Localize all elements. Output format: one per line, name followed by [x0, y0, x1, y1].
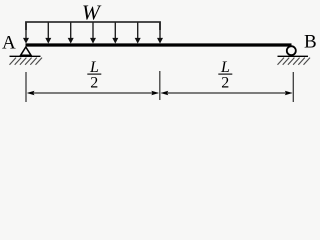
svg-text:2: 2 [221, 75, 229, 92]
pin support A: ground hatching [10, 58, 43, 65]
dimension line right span L/2 [161, 91, 293, 95]
beam AB [26, 43, 292, 46]
load arrow 5 [112, 22, 118, 44]
svg-text:B: B [304, 32, 317, 53]
roller support B: circle [287, 46, 296, 55]
svg-text:W: W [82, 0, 102, 24]
load arrow 1 [23, 22, 29, 44]
dimension label L/2 (left): fraction bar [87, 73, 101, 75]
roller support B: ground hatching [278, 58, 311, 65]
dimension extension line at midspan [159, 71, 161, 100]
roller support B: ground line [278, 55, 309, 57]
svg-text:L: L [89, 59, 99, 76]
dimension extension line at A [25, 72, 27, 102]
dimension extension line at B [292, 72, 294, 102]
pin support A: triangle [21, 47, 31, 55]
dimension line left span L/2 [27, 91, 159, 95]
load arrow 7 [157, 22, 163, 44]
svg-text:A: A [2, 33, 16, 54]
distributed load top bar [26, 22, 160, 30]
load arrow 2 [45, 22, 51, 44]
svg-text:L: L [220, 59, 230, 76]
load arrow 4 [90, 22, 96, 44]
dimension label L/2 (right): fraction bar [218, 73, 232, 75]
pin support A: ground line [10, 55, 41, 57]
svg-text:2: 2 [90, 75, 98, 92]
load arrow 6 [135, 22, 141, 44]
load arrow 3 [68, 22, 74, 44]
